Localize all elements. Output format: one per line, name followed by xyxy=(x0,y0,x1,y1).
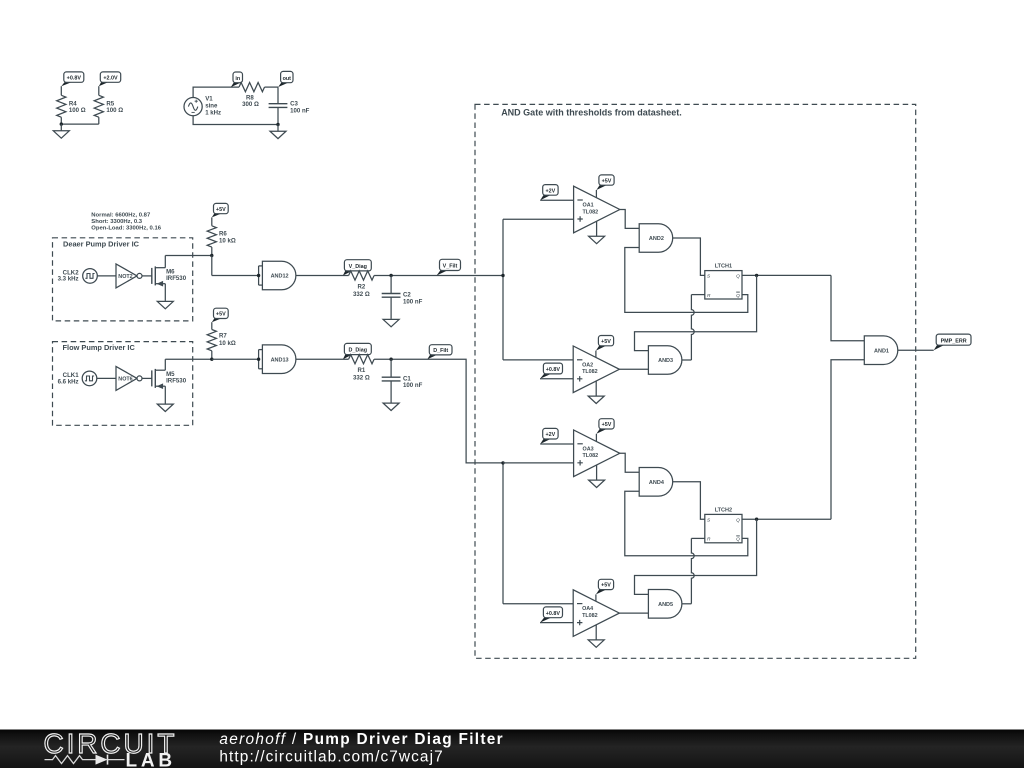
svg-text:R7: R7 xyxy=(219,333,227,340)
and-gate AND2 xyxy=(639,224,673,253)
and-gate AND5 xyxy=(648,590,682,619)
svg-text:IRF530: IRF530 xyxy=(166,378,187,385)
flag +5V xyxy=(596,175,614,198)
ground xyxy=(589,221,605,244)
wire AND2 out to LTCH1 S xyxy=(673,238,705,275)
flag PMP_ERR xyxy=(934,334,971,350)
svg-text:AND2: AND2 xyxy=(649,236,664,242)
svg-text:100 nF: 100 nF xyxy=(290,107,310,114)
svg-text:AND1: AND1 xyxy=(874,348,889,354)
svg-text:6.6 kHz: 6.6 kHz xyxy=(58,378,79,385)
svg-text:+2V: +2V xyxy=(546,432,556,438)
flag +2V xyxy=(540,185,573,201)
wire AND12 out (V row) xyxy=(296,275,503,277)
wire to AND12 xyxy=(212,275,259,277)
wire NOT2-M6 gate xyxy=(142,275,152,277)
svg-text:1 kHz: 1 kHz xyxy=(205,109,221,116)
svg-text:D_Diag: D_Diag xyxy=(349,348,368,354)
svg-text:Open-Load: 3300Hz, 0.16: Open-Load: 3300Hz, 0.16 xyxy=(91,226,161,232)
flag +2V xyxy=(540,428,573,444)
wire Q to AND1 input xyxy=(831,275,864,340)
svg-text:V1: V1 xyxy=(205,95,213,102)
wire AND1 out xyxy=(898,349,934,351)
flag out xyxy=(278,71,293,87)
latch LTCH1 xyxy=(705,264,742,299)
resistor R6 xyxy=(207,217,236,255)
svg-text:V_Diag: V_Diag xyxy=(349,264,367,270)
box AND Gate with thresholds xyxy=(475,104,916,658)
clock source CLK2 xyxy=(58,269,98,284)
capacitor C2 xyxy=(382,274,423,319)
flag +5V xyxy=(596,336,614,358)
svg-text:Q: Q xyxy=(736,517,740,523)
transistor M5 xyxy=(152,359,187,403)
svg-text:NOT2: NOT2 xyxy=(118,274,132,280)
wire to OA4 - xyxy=(503,603,573,605)
inverter NOT2 xyxy=(116,264,142,288)
flag in xyxy=(231,72,243,87)
svg-text:sine: sine xyxy=(205,102,218,109)
wire AND4 out to LTCH2 S xyxy=(673,482,705,519)
wire to OA3 + xyxy=(503,462,574,464)
svg-text:OA4: OA4 xyxy=(582,606,593,612)
wire Qbar to AND4 input xyxy=(625,491,748,556)
ground xyxy=(588,625,604,648)
flag +0.8V xyxy=(61,72,84,86)
svg-text:LTCH1: LTCH1 xyxy=(715,264,732,270)
svg-text:100 nF: 100 nF xyxy=(403,382,423,389)
svg-text:332 Ω: 332 Ω xyxy=(353,291,370,298)
wire OA4 out xyxy=(619,612,648,614)
capacitor C1 xyxy=(382,358,423,403)
svg-text:TL082: TL082 xyxy=(582,613,598,619)
svg-text:+0.8V: +0.8V xyxy=(546,367,561,373)
flag +0.8V xyxy=(540,607,573,623)
svg-text:AND3: AND3 xyxy=(658,358,673,364)
resistor R7 xyxy=(207,322,236,359)
wire to AND13 xyxy=(212,358,259,360)
node V_Filt distribution xyxy=(501,219,504,360)
op-amp OA3 xyxy=(574,430,620,477)
clock source CLK1 xyxy=(58,371,97,386)
flag +5V xyxy=(596,579,614,601)
latch LTCH2 xyxy=(705,508,742,543)
wire OA1 out xyxy=(620,210,639,229)
svg-text:R: R xyxy=(707,537,711,543)
op-amp OA4 xyxy=(573,590,619,637)
svg-text:Q: Q xyxy=(736,274,740,280)
voltage source V1 xyxy=(184,95,221,116)
wire M5 drain xyxy=(165,358,212,360)
inverter NOT6 xyxy=(116,366,142,390)
svg-text:332 Ω: 332 Ω xyxy=(353,375,370,382)
ground xyxy=(157,404,173,411)
resistor R2 xyxy=(349,271,375,298)
svg-text:TL082: TL082 xyxy=(583,209,599,215)
node R6-M6 junction xyxy=(210,254,213,276)
svg-text:3.3 kHz: 3.3 kHz xyxy=(58,276,79,283)
wire OA3 out xyxy=(620,453,639,472)
resistor R1 xyxy=(349,355,375,382)
svg-text:Short: 3300Hz, 0.3: Short: 3300Hz, 0.3 xyxy=(91,219,142,225)
svg-text:+0.8V: +0.8V xyxy=(546,611,561,617)
flag V_Diag xyxy=(343,260,371,276)
wire NOT6-M5 gate xyxy=(142,377,152,379)
svg-text:OA3: OA3 xyxy=(583,446,594,452)
svg-text:AND5: AND5 xyxy=(658,602,673,608)
svg-text:+5V: +5V xyxy=(602,422,612,428)
svg-text:http://circuitlab.com/c7wcaj7: http://circuitlab.com/c7wcaj7 xyxy=(219,749,443,766)
and-gate AND12 xyxy=(257,261,296,290)
svg-text:AND Gate with thresholds from: AND Gate with thresholds from datasheet. xyxy=(501,107,682,117)
wire Qbar to AND2 input xyxy=(625,248,748,313)
svg-text:AND12: AND12 xyxy=(271,274,289,280)
svg-text:AND13: AND13 xyxy=(271,357,289,363)
wire OA2 out xyxy=(619,368,648,370)
wire AND13 out (D row) xyxy=(296,359,503,463)
flag +5V xyxy=(212,308,228,322)
svg-text:V_Filt: V_Filt xyxy=(443,264,458,270)
wire AND5 out to LTCH2 R xyxy=(682,538,705,603)
and-gate AND4 xyxy=(639,468,673,497)
ground xyxy=(383,403,399,410)
svg-text:TL082: TL082 xyxy=(582,369,598,375)
svg-text:100 Ω: 100 Ω xyxy=(106,107,123,114)
ground xyxy=(383,319,399,326)
flag D_Diag xyxy=(343,343,371,359)
svg-text:AND4: AND4 xyxy=(649,480,665,486)
wire V1 bottom xyxy=(193,116,280,127)
wire CLK1-NOT6 xyxy=(97,377,116,379)
svg-text:100 nF: 100 nF xyxy=(403,298,423,305)
flag +2.0V xyxy=(99,72,121,86)
wire R4-R5 bottom xyxy=(60,122,99,125)
svg-text:OA1: OA1 xyxy=(583,203,594,209)
note thresholds xyxy=(91,212,161,231)
ground xyxy=(589,465,605,488)
svg-text:LAB: LAB xyxy=(126,750,176,768)
resistor R5 xyxy=(94,86,123,124)
svg-text:Normal: 6600Hz, 0.87: Normal: 6600Hz, 0.87 xyxy=(91,212,151,218)
box Flow Pump Driver IC xyxy=(53,342,193,426)
wire to OA1 + xyxy=(503,218,574,220)
wire V1 top xyxy=(193,87,239,97)
flag D_Filt xyxy=(427,345,452,360)
svg-text:Flow Pump Driver IC: Flow Pump Driver IC xyxy=(63,343,136,352)
svg-text:D_Filt: D_Filt xyxy=(433,348,448,354)
svg-text:Q: Q xyxy=(736,537,740,543)
wire to OA2 - xyxy=(503,359,573,361)
svg-text:+5V: +5V xyxy=(601,583,611,589)
svg-text:Deaer Pump Driver IC: Deaer Pump Driver IC xyxy=(63,239,140,248)
flag +0.8V xyxy=(540,363,573,379)
and-gate AND1 xyxy=(864,336,898,365)
svg-text:10 kΩ: 10 kΩ xyxy=(219,238,236,245)
wire M6 drain xyxy=(165,255,212,257)
flag V_Filt xyxy=(437,259,461,275)
ground xyxy=(270,125,286,139)
svg-text:R: R xyxy=(707,293,711,299)
capacitor C3 xyxy=(269,87,310,124)
node R7-M5 junction xyxy=(210,358,213,361)
transistor M6 xyxy=(152,256,187,301)
svg-text:IRF530: IRF530 xyxy=(166,275,187,282)
resistor R8 xyxy=(239,83,278,109)
svg-text:+5V: +5V xyxy=(602,178,612,184)
svg-text:LTCH2: LTCH2 xyxy=(715,508,732,514)
wire LTCH2 Q out xyxy=(742,518,831,521)
ground xyxy=(157,301,173,308)
svg-text:TL082: TL082 xyxy=(583,453,599,459)
svg-text:in: in xyxy=(235,76,240,82)
resistor R4 xyxy=(57,86,86,124)
svg-text:OA2: OA2 xyxy=(582,362,593,368)
banner title xyxy=(219,731,504,748)
svg-text:300 Ω: 300 Ω xyxy=(242,101,259,108)
svg-text:Q: Q xyxy=(736,293,740,299)
svg-text:PMP_ERR: PMP_ERR xyxy=(941,338,967,344)
flag +5V xyxy=(212,203,228,217)
svg-text:+5V: +5V xyxy=(216,312,226,318)
and-gate AND3 xyxy=(648,346,681,375)
op-amp OA1 xyxy=(574,186,620,233)
svg-text:100 Ω: 100 Ω xyxy=(69,107,86,114)
svg-text:+5V: +5V xyxy=(216,207,226,213)
svg-text:+2V: +2V xyxy=(546,188,556,194)
svg-text:+2.0V: +2.0V xyxy=(103,75,118,81)
flag +5V xyxy=(596,419,614,442)
node D_Filt distribution xyxy=(501,461,504,604)
wire Q to AND3 input xyxy=(635,275,757,350)
logo CIRCUIT LAB xyxy=(44,728,178,772)
svg-text:out: out xyxy=(283,76,292,82)
svg-text:10 kΩ: 10 kΩ xyxy=(219,340,236,347)
wire CLK2-NOT2 xyxy=(97,275,116,277)
svg-text:aerohoff / Pump Driver Diag Fi: aerohoff / Pump Driver Diag Filter xyxy=(219,731,504,748)
box Deaer Pump Driver IC xyxy=(53,238,193,321)
ground xyxy=(53,124,69,138)
svg-text:+5V: +5V xyxy=(601,339,611,345)
svg-text:R2: R2 xyxy=(358,283,366,290)
wire LTCH1 Q out xyxy=(742,274,831,277)
banner url xyxy=(219,749,443,766)
svg-text:R1: R1 xyxy=(358,367,366,374)
wire Q to AND5 input xyxy=(635,519,757,594)
and-gate AND13 xyxy=(257,345,296,374)
svg-text:NOT6: NOT6 xyxy=(118,376,132,382)
svg-text:+0.8V: +0.8V xyxy=(67,75,82,81)
ground xyxy=(588,381,604,404)
op-amp OA2 xyxy=(573,346,619,393)
wire AND3 out to LTCH1 R xyxy=(682,295,705,360)
wire Q to AND1 input xyxy=(831,360,864,520)
svg-text:R6: R6 xyxy=(219,230,227,237)
